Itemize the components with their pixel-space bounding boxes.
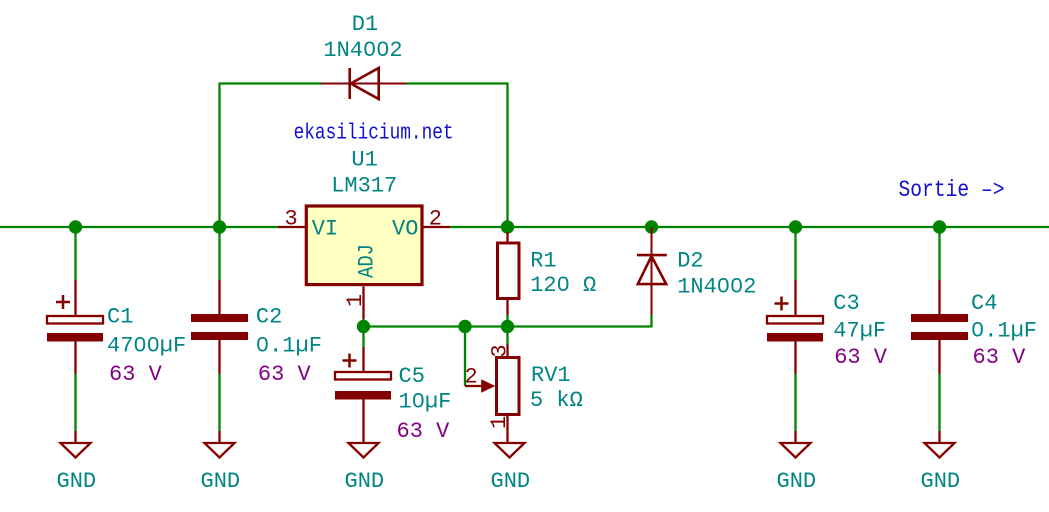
potentiometer RV1 xyxy=(465,344,519,443)
svg-text:2: 2 xyxy=(429,207,442,232)
wire ADJ lower rail xyxy=(364,325,652,327)
wire D1 branch left vertical xyxy=(218,84,220,228)
svg-text:ekasilicium.net: ekasilicium.net xyxy=(294,121,454,146)
wire C1 upper xyxy=(74,227,76,280)
svg-text:2: 2 xyxy=(465,365,478,390)
capacitor C4 xyxy=(911,280,968,374)
svg-text:10µF: 10µF xyxy=(399,390,452,415)
capacitor C3 xyxy=(767,280,823,374)
svg-text:LM317: LM317 xyxy=(331,174,397,199)
svg-text:63 V: 63 V xyxy=(109,362,163,387)
svg-text:GND: GND xyxy=(777,469,817,494)
svg-text:C4: C4 xyxy=(971,291,997,316)
ground C2 xyxy=(205,431,235,458)
svg-text:1: 1 xyxy=(487,416,512,429)
node junction ADJ / C5 xyxy=(357,320,370,333)
wire RV1 top green segment xyxy=(506,327,508,345)
ground C5 xyxy=(349,443,379,458)
capacitor C2 xyxy=(191,280,248,374)
svg-text:3: 3 xyxy=(285,207,298,232)
svg-text:1N4002: 1N4002 xyxy=(677,274,756,299)
wire ADJ pin green segment xyxy=(362,319,364,327)
ground C3 xyxy=(781,431,811,458)
wire C4 upper xyxy=(938,227,940,280)
svg-text:GND: GND xyxy=(491,469,531,494)
wire C1 lower xyxy=(74,374,76,431)
svg-text:VI: VI xyxy=(312,216,338,241)
wire D1 branch right vertical xyxy=(506,84,508,228)
wire D2 bottom green segment xyxy=(650,315,652,328)
svg-text:D1: D1 xyxy=(352,12,378,37)
wire C2 upper xyxy=(218,227,220,280)
svg-text:47µF: 47µF xyxy=(833,319,886,344)
svg-text:C1: C1 xyxy=(107,305,133,330)
op-amp regulator U1 body xyxy=(306,206,422,285)
diode D1 xyxy=(321,68,407,99)
svg-text:GND: GND xyxy=(57,469,97,494)
wire C5 top green segment xyxy=(362,327,364,348)
svg-text:ADJ: ADJ xyxy=(355,244,380,278)
svg-text:D2: D2 xyxy=(677,248,703,273)
svg-text:C2: C2 xyxy=(256,305,282,330)
U1 pin VI line xyxy=(278,226,305,228)
node junction VO / D1 right / R1 xyxy=(501,220,514,233)
svg-text:U1: U1 xyxy=(351,148,377,173)
wire D1 top right horizontal xyxy=(407,82,509,84)
resistor R1 xyxy=(498,232,520,315)
wire RV1 wiper vertical xyxy=(464,327,466,387)
U1 pin ADJ line xyxy=(362,287,364,320)
svg-text:R1: R1 xyxy=(530,248,556,273)
node junction D2 top xyxy=(645,220,658,233)
svg-text:5 kΩ: 5 kΩ xyxy=(530,388,583,413)
node junction C3 xyxy=(789,220,802,233)
svg-text:VO: VO xyxy=(392,216,418,241)
svg-text:GND: GND xyxy=(921,469,961,494)
svg-text:C5: C5 xyxy=(399,364,425,389)
wire C2 lower xyxy=(218,374,220,431)
svg-text:1: 1 xyxy=(343,294,368,307)
svg-text:3: 3 xyxy=(488,344,513,357)
ground C1 xyxy=(61,431,91,458)
wire C3 lower xyxy=(794,374,796,431)
svg-text:4700µF: 4700µF xyxy=(107,333,186,358)
svg-text:GND: GND xyxy=(345,469,385,494)
node junction C2 / D1 left xyxy=(213,220,226,233)
wire R1 bottom green segment xyxy=(506,315,508,327)
svg-text:63 V: 63 V xyxy=(973,345,1027,370)
svg-text:63 V: 63 V xyxy=(834,345,888,370)
svg-text:63 V: 63 V xyxy=(397,419,451,444)
svg-text:0.1µF: 0.1µF xyxy=(256,333,322,358)
node junction wiper xyxy=(458,320,471,333)
U1 pin VO line xyxy=(423,226,450,228)
ground RV1 xyxy=(495,443,525,458)
wire D1 top left horizontal xyxy=(219,82,322,84)
wire main rail left segment xyxy=(0,226,278,228)
wire C4 lower xyxy=(938,374,940,431)
svg-text:1N4002: 1N4002 xyxy=(323,38,402,63)
svg-text:C3: C3 xyxy=(833,291,859,316)
capacitor C1 xyxy=(47,280,103,374)
node junction C1 xyxy=(69,220,82,233)
wire main rail right segment xyxy=(450,226,1049,228)
capacitor C5 xyxy=(335,347,391,443)
node junction R1 / RV1 xyxy=(501,320,514,333)
wire C3 upper xyxy=(794,227,796,280)
svg-text:GND: GND xyxy=(201,469,241,494)
svg-text:Sortie –>: Sortie –> xyxy=(899,177,1005,204)
node junction C4 xyxy=(933,220,946,233)
ground C4 xyxy=(925,431,955,458)
svg-text:RV1: RV1 xyxy=(531,363,571,388)
svg-text:0.1µF: 0.1µF xyxy=(971,319,1037,344)
diode D2 xyxy=(637,227,667,315)
svg-text:63 V: 63 V xyxy=(258,362,312,387)
